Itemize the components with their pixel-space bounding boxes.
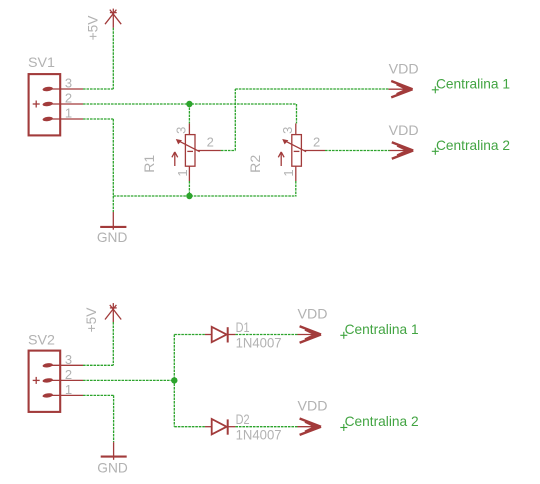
potentiometer R2 [278,123,325,181]
wire wiper up [234,89,236,151]
wire pin1 down to GND [112,119,114,212]
svg-text:D1: D1 [236,319,250,335]
svg-text:1: 1 [281,169,296,176]
wire to D2 anode [174,426,205,428]
wire junction vertical to diodes [173,335,175,427]
ground GND (upper) [100,212,126,230]
svg-text:1: 1 [65,106,72,121]
junction (pin2 / R1 top) [186,101,192,107]
svg-text:Centralina 2: Centralina 2 [436,137,510,153]
wire pin1 down to GND (lower) [113,395,115,442]
svg-text:2: 2 [65,367,72,382]
supply +5V (upper) [105,9,121,28]
diode D1 [205,327,235,343]
diode D2 [205,419,235,435]
svg-text:1N4007: 1N4007 [236,335,282,351]
wire +5V to SV2 pin3 [112,322,114,365]
svg-text:GND: GND [97,460,128,476]
wire D2 cathode to VDD [235,426,297,428]
ground GND (lower) [101,442,127,460]
wire SV2 pin3 [83,364,113,366]
wire D1 cathode to VDD [235,334,297,336]
svg-text:SV2: SV2 [28,332,55,348]
wire to R2 pin3 [296,104,298,123]
svg-text:+5V: +5V [84,15,100,40]
wire SV2 pin1 [83,394,114,396]
svg-text:3: 3 [65,76,72,91]
wire SV1 pin1 [83,118,113,120]
junction (pin2 / diodes) [171,377,177,383]
junction (rail / R1 bottom) [186,193,192,199]
svg-text:Centralina 1: Centralina 1 [436,75,510,91]
wire R2 wiper to VDD upper2 [325,150,390,152]
label Centralina 2 (lower) [340,413,418,431]
wire +5V to SV1 pin3 [112,28,114,89]
svg-text:SV1: SV1 [28,54,55,70]
svg-text:D2: D2 [236,411,250,427]
svg-text:3: 3 [65,352,72,367]
svg-text:VDD: VDD [389,122,419,138]
svg-text:VDD: VDD [389,61,419,77]
svg-text:2: 2 [207,135,214,150]
potentiometer R1 [172,123,221,181]
svg-text:VDD: VDD [298,305,328,321]
svg-text:Centralina 1: Centralina 1 [345,321,419,337]
wire to VDD upper1 [235,88,388,90]
connector SV2 [29,351,83,412]
wire SV1 pin2 to pots [83,103,297,105]
label Centralina 1 (upper) [432,75,510,93]
connector SV1 [29,74,83,135]
wire SV2 pin2 to junction [83,379,174,381]
svg-text:3: 3 [174,127,189,134]
wire SV1 pin3 [83,88,113,90]
wire R2 pin1 to rail [295,181,297,196]
supply +5V (lower) [105,303,121,322]
wire R1 wiper right [221,150,235,152]
svg-text:Centralina 2: Centralina 2 [345,413,419,429]
svg-text:+5V: +5V [83,307,99,332]
svg-text:3: 3 [280,127,295,134]
svg-text:2: 2 [313,135,320,150]
svg-text:2: 2 [65,91,72,106]
label Centralina 2 (upper) [432,137,510,155]
supply VDD (upper 2) [390,142,414,158]
wire junction to R1 pin3 [188,104,190,123]
svg-text:1: 1 [175,169,190,176]
label Centralina 1 (lower) [340,321,418,339]
supply VDD (lower 2) [298,419,322,435]
svg-text:1: 1 [65,382,72,397]
svg-text:VDD: VDD [298,397,328,413]
supply VDD (upper 1) [389,81,413,97]
svg-text:1N4007: 1N4007 [236,427,282,443]
bottom rail [113,195,296,197]
svg-text:R1: R1 [141,155,157,173]
wire R1 pin1 to rail [188,181,190,196]
supply VDD (lower 1) [298,326,322,342]
svg-text:R2: R2 [247,155,263,173]
wire to D1 anode [174,334,205,336]
svg-text:GND: GND [97,229,128,245]
